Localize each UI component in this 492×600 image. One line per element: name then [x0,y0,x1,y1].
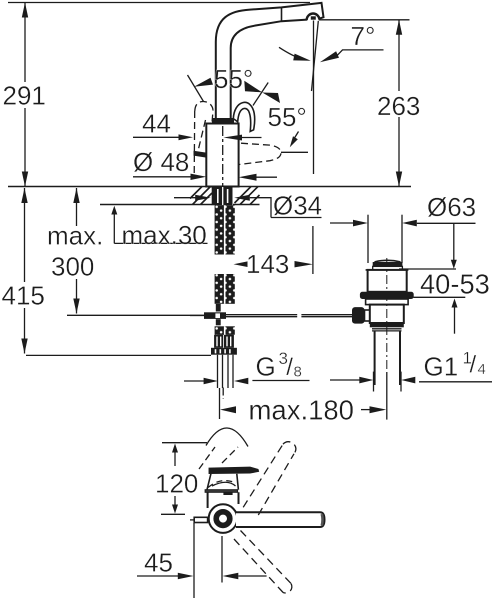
node neck dome dashed [208,481,236,488]
node dimension O63 [367,215,369,263]
wire 263 top extension line [319,19,410,21]
node swivel circle [209,504,238,533]
node drain flange [360,292,414,299]
node neck dome solid [212,482,236,486]
wire counter top line [8,186,411,188]
svg-text:max.: max. [47,221,103,251]
node threaded tube segment C [215,326,235,335]
node lever ghost right (dashed pill) [239,143,281,164]
wire body centerline [222,126,224,186]
wire 120 bottom reference [161,513,185,515]
node dimension 415 [24,188,26,282]
node drain tailpipe [374,331,376,385]
wire drain centerline [386,258,388,372]
node lever handle tab (solid, rest position) [194,151,207,158]
node threaded tube segment B [215,274,235,304]
node 55deg left leg line [188,75,204,102]
svg-text:45: 45 [144,548,173,578]
node dimension max.180 [219,388,221,419]
wire pull rod to drain [226,315,352,317]
node dimension 44 [133,136,179,138]
svg-text:120: 120 [155,468,198,498]
node plan tab [223,492,232,495]
svg-text:Ø 48: Ø 48 [133,147,189,177]
node dimension 120 [172,444,178,453]
node dimension O34 [174,197,196,199]
node drain body [370,305,404,323]
wire vertical reference line from aerator [313,21,315,175]
node collar [212,118,234,124]
node raised lever ghost dashes [199,447,238,469]
wire 45 extension lines [193,523,195,598]
svg-text:max.30: max.30 [122,220,207,250]
wire 7deg leader [337,50,384,56]
node drain nut [370,323,404,327]
wire pill leader line [281,151,308,153]
node plan lever bar [209,467,258,473]
node lever ghost up-left (dashed) [194,101,213,176]
svg-text:55°: 55° [268,102,307,132]
node lever hook (side view) [233,102,254,131]
node pull rod knob [352,307,365,324]
node plan spout pill [236,512,325,527]
node swivel ring [216,512,230,526]
node 55deg right leg line [253,83,268,106]
node 7deg arrow right [320,51,339,62]
node spout outline [216,3,324,119]
node dimension G3/8 [184,380,204,382]
node plan housing [208,492,239,508]
wire top extension line (291 top reference) [8,2,310,4]
node threaded shank through counter [212,187,233,206]
node dimension 263 [398,20,400,91]
node drain seat band [366,299,409,305]
node spout ghost lower (dashed pill) [234,531,292,594]
node dimension 40-53 [399,268,456,270]
node counter hatching right [235,187,260,205]
wire max300 bottom reference line [67,314,208,316]
svg-text:40-53: 40-53 [420,269,490,300]
wire 120 top extension line [162,442,207,444]
svg-text:143: 143 [246,249,289,279]
node drain upper cylinder [366,269,409,271]
node hose fittings [211,335,237,355]
svg-text:4: 4 [478,361,486,378]
node dimension max.30 [111,206,117,215]
node counter hatching left [190,187,212,205]
node drain washer [372,328,402,330]
node drain plug lid [375,260,401,262]
node dimension G1 1/4 [373,372,375,392]
svg-text:291: 291 [3,81,46,111]
wire 415 bottom reference line (hose level) [26,354,211,356]
node 7deg arc arrow left [279,47,303,59]
node plan base bar [205,490,238,493]
wire pull rod stub left [190,315,204,317]
svg-text:300: 300 [51,252,94,282]
svg-text:415: 415 [2,281,45,311]
svg-text:/: / [286,354,293,381]
node drain plug stem [373,266,403,269]
node pill end face [320,514,323,526]
node 55deg right bowtie arrow [244,81,280,103]
svg-text:7°: 7° [351,21,376,51]
node faucet body [206,124,238,187]
node aerator [307,13,320,19]
node dimension O48 [133,176,191,178]
svg-text:/: / [470,352,477,379]
node dimension 291 [24,3,26,83]
svg-text:44: 44 [142,109,171,139]
wire spout seam [281,7,283,21]
svg-text:G: G [256,352,276,382]
node spout ghost upper (dashed pill) [243,442,296,515]
svg-text:Ø63: Ø63 [427,192,476,222]
node raised lever arc [206,428,248,447]
wire counter bottom line [100,204,212,206]
node tee fitting [216,304,221,312]
svg-text:max.180: max.180 [249,395,354,426]
node supply hoses [218,355,234,388]
wire 7deg tilted stream line [312,21,319,91]
svg-text:8: 8 [294,364,302,381]
node plan lever neck [207,474,238,490]
node plan stub left [194,517,207,522]
node threaded tube segment A [215,205,235,254]
svg-text:263: 263 [377,91,420,121]
svg-text:G1: G1 [424,352,459,382]
node dimension 143 [234,261,248,267]
node dimension max.300 [76,188,78,226]
node 55deg right leader arrow [292,132,299,143]
node 55deg left arrowhead [194,78,213,87]
svg-text:Ø34: Ø34 [273,191,322,221]
